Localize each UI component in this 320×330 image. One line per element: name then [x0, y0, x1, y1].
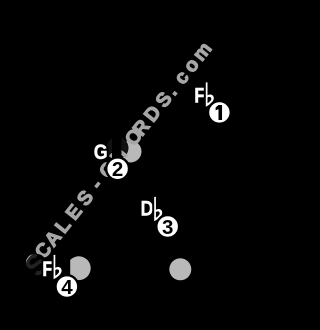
- finger circle 1: [208, 101, 231, 124]
- svg-text:F: F: [194, 84, 205, 108]
- svg-text:D: D: [141, 197, 154, 221]
- svg-text:4: 4: [61, 276, 73, 299]
- finger circle 3: [156, 215, 179, 238]
- finger circle 4: [56, 275, 79, 298]
- finger circle 2: [106, 157, 129, 180]
- fret line (black, bites gray dot near Fb4): [64, 248, 70, 288]
- note dot gray lone: [169, 258, 191, 280]
- fret line (black, bites gray dot near G, hides H): [112, 130, 122, 174]
- flat sign 3: [154, 197, 162, 221]
- svg-text:F: F: [42, 257, 53, 281]
- svg-text:G: G: [94, 140, 108, 164]
- note dot gray near G: [120, 141, 142, 163]
- note dot dark (hidden, bites watermark S): [28, 254, 46, 272]
- note dot gray near Fb4: [67, 256, 91, 280]
- note dot dark G root: [107, 137, 129, 159]
- svg-text:2: 2: [112, 158, 123, 181]
- flat sign 4: [54, 255, 62, 279]
- flat sign 1: [206, 82, 214, 106]
- svg-text:3: 3: [162, 216, 173, 239]
